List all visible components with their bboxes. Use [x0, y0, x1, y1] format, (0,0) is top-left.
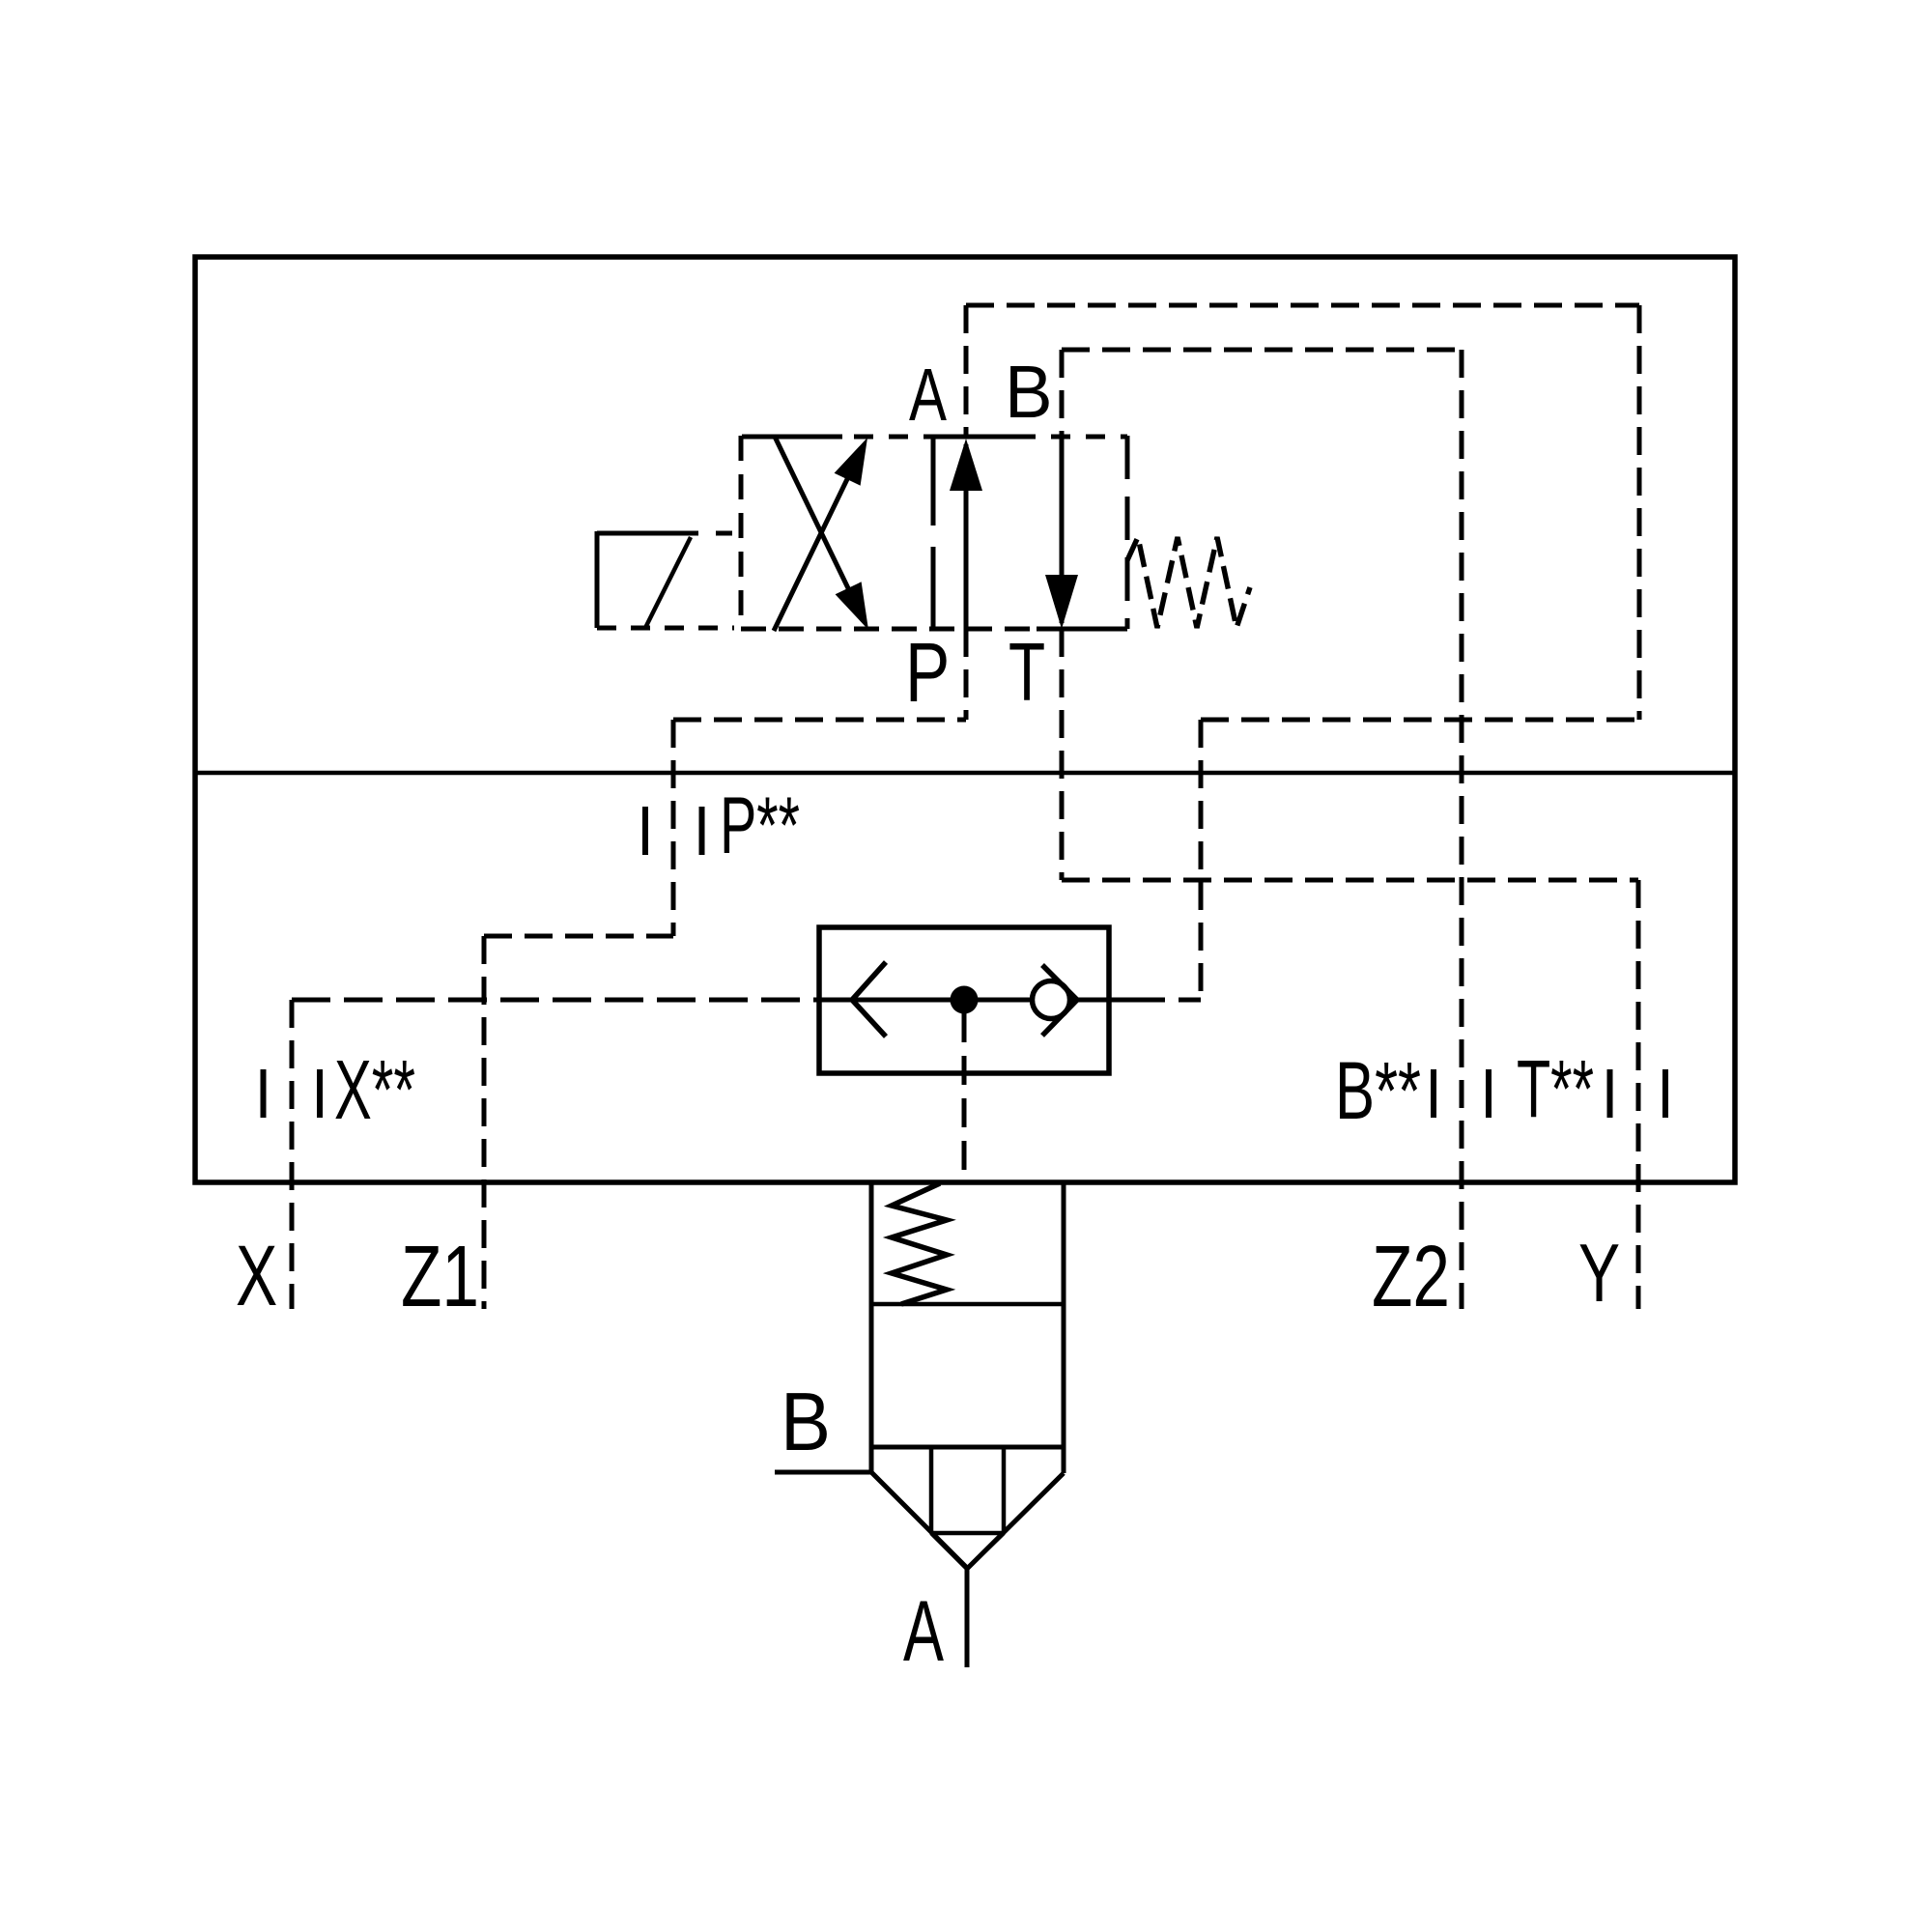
svg-text:Z1: Z1 [401, 1228, 479, 1325]
svg-text:T**: T** [1517, 1043, 1594, 1134]
svg-text:P: P [905, 626, 950, 720]
svg-text:Y: Y [1578, 1228, 1620, 1320]
svg-text:B**: B** [1335, 1045, 1421, 1136]
svg-text:B: B [1005, 351, 1053, 434]
svg-text:A: A [909, 354, 947, 437]
svg-text:X: X [236, 1228, 277, 1323]
svg-text:Z2: Z2 [1372, 1228, 1450, 1325]
svg-text:X**: X** [334, 1043, 415, 1137]
svg-text:B: B [781, 1377, 831, 1468]
svg-text:A: A [903, 1582, 944, 1679]
svg-text:P**: P** [720, 780, 800, 870]
svg-text:T: T [1009, 627, 1045, 719]
